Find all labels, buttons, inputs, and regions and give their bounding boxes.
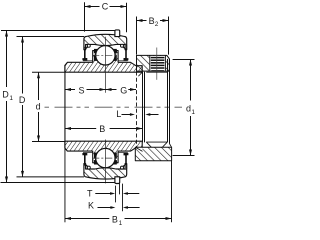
svg-text:S: S	[79, 85, 85, 95]
svg-text:C: C	[102, 1, 109, 11]
svg-text:B: B	[99, 124, 105, 134]
svg-text:K: K	[88, 201, 94, 211]
svg-text:1: 1	[9, 95, 13, 102]
svg-text:L: L	[116, 109, 121, 119]
svg-text:d: d	[186, 104, 191, 114]
svg-text:1: 1	[191, 109, 195, 116]
svg-text:d: d	[36, 102, 41, 112]
svg-text:2: 2	[155, 21, 159, 28]
svg-text:D: D	[19, 95, 26, 105]
svg-text:B: B	[149, 16, 155, 26]
svg-text:T: T	[87, 188, 93, 198]
svg-text:B: B	[112, 215, 118, 225]
svg-text:G: G	[120, 86, 127, 96]
svg-text:D: D	[2, 89, 9, 99]
svg-text:1: 1	[119, 220, 123, 226]
